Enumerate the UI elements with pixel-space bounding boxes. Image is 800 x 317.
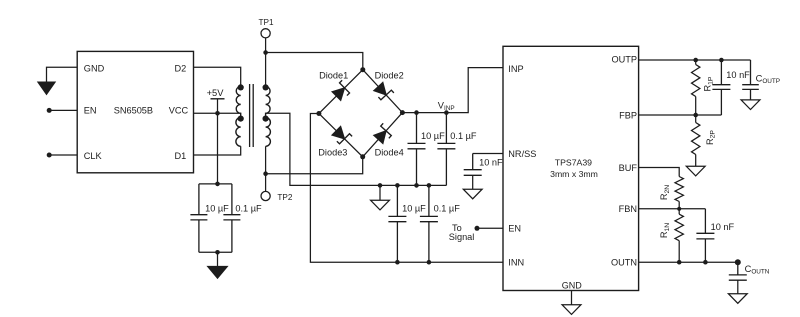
svg-text:OUTP: OUTP — [611, 55, 637, 65]
svg-text:3mm x 3mm: 3mm x 3mm — [550, 169, 598, 179]
svg-text:10 nF: 10 nF — [479, 158, 503, 168]
svg-text:FBP: FBP — [619, 110, 637, 120]
svg-text:Signal: Signal — [449, 232, 475, 242]
svg-text:Diode3: Diode3 — [318, 148, 347, 158]
svg-text:BUF: BUF — [619, 163, 638, 173]
svg-text:EN: EN — [508, 224, 521, 234]
svg-text:GND: GND — [562, 281, 583, 291]
svg-text:0.1 µF: 0.1 µF — [450, 131, 477, 141]
svg-text:D2: D2 — [175, 64, 187, 74]
svg-text:10 µF: 10 µF — [402, 203, 426, 213]
svg-text:Diode1: Diode1 — [319, 70, 348, 80]
svg-text:Diode4: Diode4 — [375, 148, 404, 158]
svg-text:EN: EN — [84, 106, 97, 116]
svg-text:D1: D1 — [175, 151, 187, 161]
svg-text:TPS7A39: TPS7A39 — [555, 157, 592, 167]
svg-text:TP2: TP2 — [277, 193, 292, 202]
svg-text:SN6505B: SN6505B — [114, 105, 153, 115]
svg-text:10 nF: 10 nF — [726, 70, 750, 80]
svg-text:TP1: TP1 — [258, 18, 273, 27]
svg-text:Diode2: Diode2 — [375, 71, 404, 81]
svg-text:+5V: +5V — [207, 88, 225, 98]
svg-text:0.1 µF: 0.1 µF — [434, 203, 461, 213]
svg-text:VCC: VCC — [169, 106, 189, 116]
svg-text:10 µF: 10 µF — [421, 131, 445, 141]
svg-text:0.1 µF: 0.1 µF — [235, 203, 262, 213]
svg-text:OUTN: OUTN — [611, 258, 637, 268]
svg-text:10 nF: 10 nF — [711, 222, 735, 232]
svg-text:INP: INP — [508, 64, 523, 74]
svg-text:GND: GND — [84, 64, 105, 74]
svg-text:FBN: FBN — [619, 204, 637, 214]
svg-text:NR/SS: NR/SS — [508, 149, 536, 159]
svg-text:10 µF: 10 µF — [205, 203, 229, 213]
svg-text:INN: INN — [508, 258, 524, 268]
svg-text:CLK: CLK — [84, 151, 103, 161]
